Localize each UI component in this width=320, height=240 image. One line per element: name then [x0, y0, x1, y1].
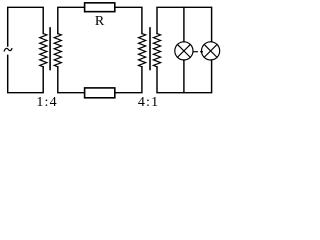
wire: left loop top (source to T1 primary)	[8, 7, 44, 46]
wire: T2 secondary bottom lead / lamp loop bottom	[157, 60, 212, 93]
inductor T1 primary coil	[40, 34, 47, 67]
AC source tilde	[4, 48, 12, 51]
resistor R box	[85, 3, 115, 12]
inductor T2 primary coil	[139, 34, 146, 67]
wire: lamp L1 branch top	[183, 7, 185, 42]
svg-text:4 : 1: 4 : 1	[138, 95, 158, 108]
wire: lamp L1 branch bottom	[183, 60, 185, 93]
lamp L2	[202, 42, 220, 60]
wire: dashed link between lamps	[193, 51, 202, 53]
lamp L1	[175, 42, 193, 60]
wire: resistor R to T2 primary	[115, 7, 142, 33]
wire: T2 secondary top lead / lamp loop top	[157, 7, 212, 42]
inductor T1 secondary coil	[54, 34, 61, 67]
svg-text:1 : 4: 1 : 4	[36, 95, 56, 108]
transformer T2 core	[149, 28, 151, 70]
inductor T2 secondary coil	[153, 34, 160, 67]
resistor (unlabeled) bottom box	[85, 88, 115, 98]
wire: bottom resistor to T2 primary bottom lead	[115, 67, 142, 93]
transformer T1 core	[49, 28, 51, 70]
wire: T1 secondary bottom lead to bottom resistor	[58, 67, 85, 93]
wire: T1 secondary top lead to resistor R	[58, 7, 85, 33]
wire: left loop bottom	[8, 55, 44, 92]
svg-text:R: R	[95, 14, 105, 29]
